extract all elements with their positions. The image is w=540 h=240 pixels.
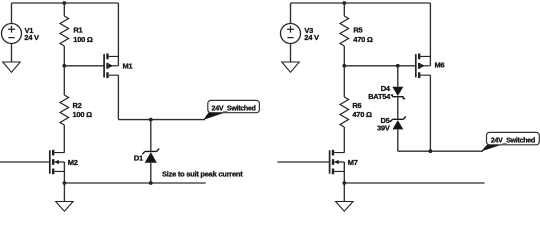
wire top rail left: [12, 2, 119, 4]
svg-text:24V_Switched: 24V_Switched: [491, 138, 535, 145]
svg-text:M6: M6: [435, 61, 445, 70]
label R1 100 Ω: [73, 25, 93, 43]
ground (bottom left): [56, 202, 73, 212]
svg-text:R6: R6: [352, 101, 361, 110]
node junction M7 source / ground: [342, 181, 346, 185]
node junction top rail / R5: [342, 1, 346, 5]
wire D4 cathode to D5 cathode: [397, 97, 399, 120]
svg-text:M1: M1: [123, 61, 133, 70]
transistor M1 (PMOS): [104, 54, 118, 79]
svg-text:24 V: 24 V: [304, 33, 319, 42]
label V1 24 V: [24, 26, 39, 42]
svg-text:R1: R1: [73, 25, 82, 34]
wire M1 drain column: [117, 75, 119, 119]
node junction D1 anode / ground: [149, 181, 153, 185]
resistor R5: [340, 3, 349, 66]
svg-text:100 Ω: 100 Ω: [73, 110, 93, 119]
ground (below V1): [3, 62, 20, 72]
svg-text:39V: 39V: [377, 124, 390, 133]
resistor R2: [60, 66, 69, 153]
svg-text:D1: D1: [134, 154, 143, 163]
annotation: Size to suit peak current: [162, 170, 243, 179]
svg-text:M7: M7: [348, 158, 358, 167]
node junction R5/R6/D4: [342, 64, 346, 68]
label M7: [348, 158, 358, 167]
wire M2 source column: [63, 162, 65, 183]
label R5 470 Ω: [353, 25, 373, 43]
transistor M2 (NMOS): [50, 150, 65, 175]
node junction M6 drain / switched wire: [429, 149, 433, 153]
voltage source V1: [2, 3, 22, 62]
label M6: [435, 61, 445, 70]
resistor R6: [340, 66, 349, 153]
wire top rail right: [291, 2, 431, 4]
node junction M2 source / ground: [63, 181, 67, 185]
wire M1 gate: [64, 65, 104, 67]
diode D1 (zener): [142, 120, 159, 183]
ground (bottom right): [336, 202, 353, 212]
resistor R1: [60, 3, 69, 66]
label M1: [123, 61, 133, 70]
label R6 470 Ω: [352, 101, 372, 119]
wire M7 gate: [277, 161, 329, 163]
svg-text:M2: M2: [68, 158, 78, 167]
wire ground stub left: [63, 183, 65, 202]
wire switched output left: [118, 119, 205, 121]
wire ground rail left: [64, 182, 205, 184]
svg-text:24 V: 24 V: [24, 33, 39, 42]
svg-text:470 Ω: 470 Ω: [352, 110, 372, 119]
node junction D4 anode / gate wire: [396, 64, 400, 68]
wire M6 drain column: [429, 75, 431, 151]
wire M2 gate: [0, 161, 50, 163]
voltage source V3: [281, 3, 301, 62]
wire ground stub right: [343, 183, 345, 202]
label D5 39V: [377, 116, 390, 133]
label D4 BAT54: [368, 84, 391, 101]
diode D5 (zener 39V): [390, 117, 406, 151]
svg-text:24V_Switched: 24V_Switched: [212, 106, 256, 113]
ground (below V3): [282, 62, 299, 72]
node junction top rail / R1: [62, 1, 66, 5]
wire M6 gate: [344, 65, 416, 67]
label D1: [134, 154, 143, 163]
label R2 100 Ω: [73, 101, 93, 119]
net flag 24V_Switched (left): [203, 100, 259, 120]
svg-text:Size to suit peak current: Size to suit peak current: [162, 170, 243, 179]
svg-text:BAT54: BAT54: [368, 92, 391, 101]
wire M6 source column: [429, 3, 431, 66]
wire ground rail right: [344, 182, 484, 184]
transistor M7 (NMOS): [330, 150, 345, 175]
svg-text:R2: R2: [73, 101, 82, 110]
svg-text:100 Ω: 100 Ω: [73, 35, 93, 44]
label M2: [68, 158, 78, 167]
diode D4 (schottky BAT54): [391, 66, 406, 99]
wire switched output right: [398, 150, 483, 152]
label V3 24 V: [304, 26, 319, 42]
node junction R1/R2/M1 gate: [62, 64, 66, 68]
transistor M6 (PMOS): [416, 54, 431, 79]
svg-text:470 Ω: 470 Ω: [353, 35, 373, 44]
wire M7 source column: [343, 162, 345, 183]
wire M1 source column: [117, 3, 119, 66]
node junction D1 top: [149, 118, 153, 122]
net flag 24V_Switched (right): [481, 132, 539, 151]
svg-text:R5: R5: [353, 25, 362, 34]
